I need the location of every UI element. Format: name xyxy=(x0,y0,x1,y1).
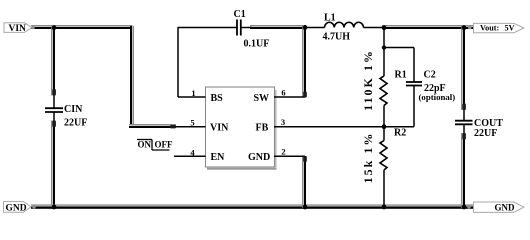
svg-text:BS: BS xyxy=(211,93,224,104)
port tag VIN xyxy=(4,23,32,34)
capacitor C1 plates xyxy=(237,20,241,36)
resistor R1 zigzag xyxy=(380,76,387,106)
svg-text:VIN: VIN xyxy=(9,24,27,34)
wire C2 branch top horizontal xyxy=(384,47,414,49)
svg-text:ON: ON xyxy=(138,139,152,149)
svg-text:3: 3 xyxy=(281,117,285,127)
svg-text:GND: GND xyxy=(6,203,27,213)
wire CIN bottom lead xyxy=(53,112,55,121)
svg-text:22UF: 22UF xyxy=(64,118,87,129)
svg-text:CIN: CIN xyxy=(64,104,83,115)
wire FB line pin 3 to divider xyxy=(274,126,384,128)
wire CIN bottom to GND bus xyxy=(51,121,55,209)
svg-text:C1: C1 xyxy=(234,9,246,20)
wire C2 top lead xyxy=(413,48,415,83)
wire L1 right lead xyxy=(364,27,385,29)
wire GND pin2 vertical to bus xyxy=(302,156,306,208)
svg-text:GND: GND xyxy=(495,203,516,213)
svg-text:C2: C2 xyxy=(424,70,436,81)
wire SW net: vertical down to pin 6 xyxy=(302,25,306,97)
svg-text:5: 5 xyxy=(190,118,194,128)
wire R1 bottom lead xyxy=(383,106,385,128)
svg-text:GND: GND xyxy=(248,152,270,163)
svg-text:5V: 5V xyxy=(505,24,515,33)
capacitor C2 plates xyxy=(406,82,422,86)
svg-text:(optional): (optional) xyxy=(419,92,456,102)
svg-text:2: 2 xyxy=(281,147,285,157)
port tag Vout 5V xyxy=(474,23,524,32)
port tag GND left xyxy=(4,202,32,214)
wire VIN net: horizontal to pin 5 xyxy=(129,124,176,128)
wire GND bus (thick horizontal) xyxy=(31,204,473,208)
svg-text:1: 1 xyxy=(191,88,195,98)
wire COUT bottom lead xyxy=(463,125,465,135)
wire pin 1 stub xyxy=(178,96,206,98)
svg-text:VIN: VIN xyxy=(210,122,229,133)
wire VIN net: vertical drop at x=131 xyxy=(130,26,134,128)
wire R2 top lead xyxy=(383,127,385,141)
wire pin 2 stub xyxy=(274,155,305,157)
svg-text:22UF: 22UF xyxy=(474,128,497,139)
svg-text:FB: FB xyxy=(256,122,269,133)
wire VOUT net: vertical to COUT xyxy=(461,26,465,110)
port tag GND right xyxy=(474,202,524,213)
wire VOUT net: top rail to tag xyxy=(382,25,473,29)
wire COUT top lead xyxy=(463,109,465,121)
wire pin 5 stub xyxy=(174,126,206,128)
capacitor COUT plates xyxy=(455,121,473,125)
wire BS loop top horizontal to C1 xyxy=(178,27,238,29)
svg-text:0.1UF: 0.1UF xyxy=(244,39,270,50)
ON/OFF switch annotation xyxy=(137,139,173,150)
wire VIN net: branch down to CIN xyxy=(51,27,55,96)
wire SW net: C1 right to junction xyxy=(250,25,306,29)
wire COUT bottom to GND bus xyxy=(461,133,465,208)
wire end caps xyxy=(52,89,56,96)
svg-text:L1: L1 xyxy=(324,13,336,24)
wire CIN top lead xyxy=(53,95,55,108)
IC U1 body xyxy=(206,87,277,169)
wire BS loop vertical x=178 xyxy=(177,28,179,98)
wire VIN net: tag to corner (thick horizontal) xyxy=(31,25,133,29)
svg-text:110K 1%: 110K 1% xyxy=(361,49,375,111)
svg-text:Vout:: Vout: xyxy=(480,24,499,33)
wire pin 6 stub xyxy=(274,96,305,98)
wire R1 top lead from VOUT rail xyxy=(383,28,385,77)
wire C2 bottom lead xyxy=(413,86,415,127)
wire pin 4 stub xyxy=(174,155,206,157)
wire C2 branch bottom horizontal xyxy=(384,126,414,128)
svg-text:4.7UH: 4.7UH xyxy=(323,32,351,43)
svg-text:SW: SW xyxy=(254,93,270,104)
wire R2 bottom lead to GND bus xyxy=(383,170,385,207)
node junction dots xyxy=(52,25,57,30)
wire C1 right lead xyxy=(241,27,252,29)
svg-text:6: 6 xyxy=(281,88,285,98)
svg-text:EN: EN xyxy=(211,152,226,163)
wire L1 left lead xyxy=(305,27,325,29)
gray tag connection dots xyxy=(31,26,35,30)
resistor R2 zigzag xyxy=(380,141,387,171)
svg-text:OFF: OFF xyxy=(155,139,173,149)
svg-text:15k 1%: 15k 1% xyxy=(361,132,375,184)
capacitor CIN plates xyxy=(45,108,63,112)
inductor L1 humps xyxy=(325,22,364,27)
svg-text:R2: R2 xyxy=(394,128,406,139)
svg-text:R1: R1 xyxy=(395,70,407,81)
